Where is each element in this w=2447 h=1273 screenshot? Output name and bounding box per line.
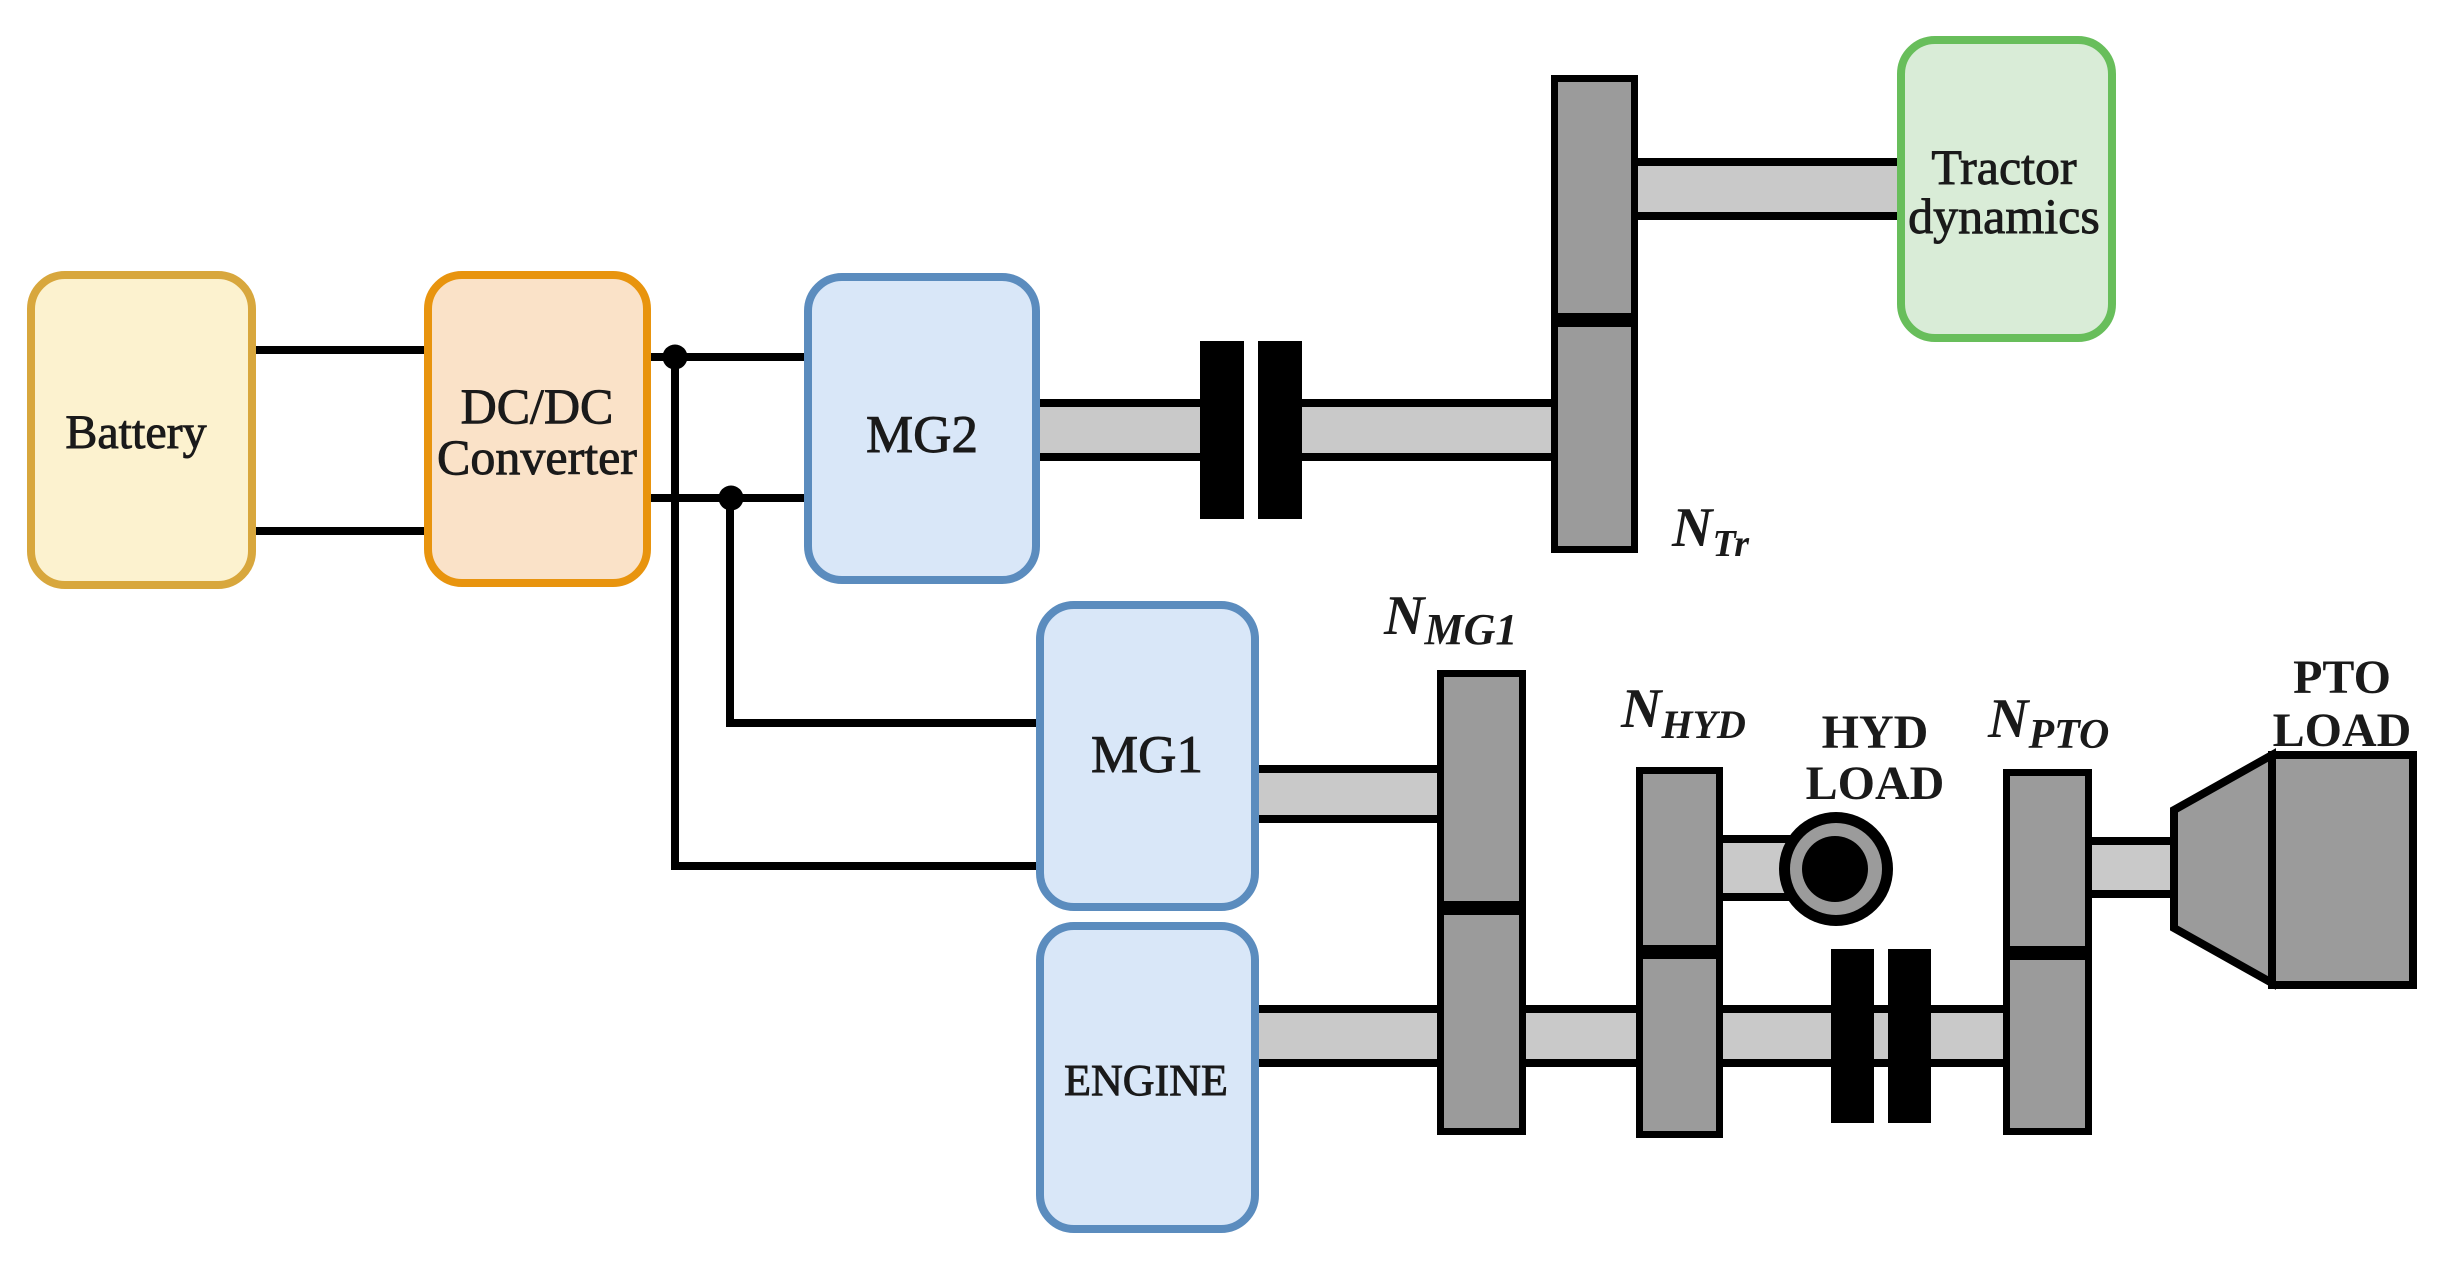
svg-text:Converter: Converter [437, 429, 637, 485]
svg-text:MG2: MG2 [866, 406, 978, 464]
svg-text:Tractor: Tractor [1931, 139, 2077, 195]
svg-text:HYD: HYD [1822, 706, 1929, 759]
svg-text:dynamics: dynamics [1908, 188, 2100, 244]
svg-text:DC/DC: DC/DC [461, 378, 614, 434]
svg-text:MG1: MG1 [1091, 726, 1203, 784]
svg-text:Battery: Battery [65, 406, 206, 459]
svg-text:ENGINE: ENGINE [1064, 1056, 1228, 1105]
svg-text:PTO: PTO [2293, 651, 2391, 704]
svg-text:LOAD: LOAD [2273, 704, 2412, 757]
svg-text:LOAD: LOAD [1806, 757, 1945, 810]
